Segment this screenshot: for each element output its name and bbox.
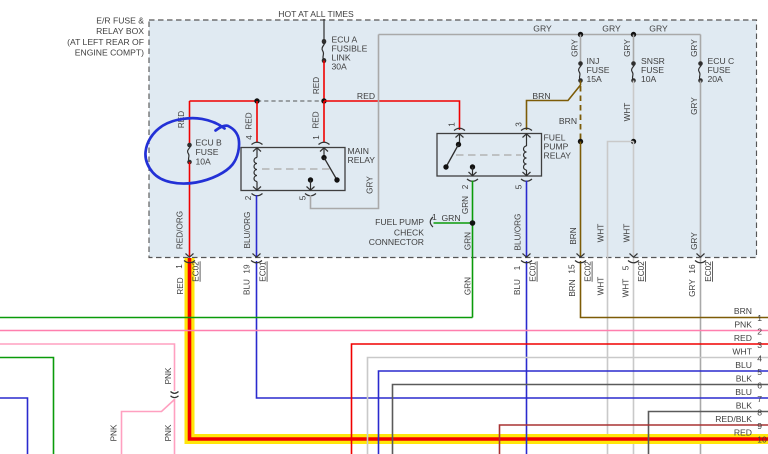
wire: BLU/ORG from main relay pin 2 to exit EC01-19 bbox=[256, 195, 258, 257]
wire: RED/BLK row 9 bbox=[500, 425, 768, 454]
wire: PNK upper left with inline connector bbox=[0, 344, 175, 391]
E/R fuse & relay box (dashed, light blue) bbox=[149, 20, 757, 258]
wire: RED down to main relay pin 4 bbox=[256, 101, 258, 142]
svg-text:9: 9 bbox=[757, 421, 762, 431]
connector: fuel pump relay pin 1 bbox=[454, 128, 465, 137]
connector: main relay pin 5 bbox=[305, 187, 316, 196]
connector: exit EC01-19 (BLU) bbox=[251, 254, 262, 263]
wire: RED horizontal right to fuel pump relay pin 1 bbox=[324, 101, 460, 130]
fuse: ECU A fusible link 30A bbox=[322, 39, 327, 63]
svg-text:PNK: PNK bbox=[734, 320, 752, 330]
relay: MAIN RELAY box bbox=[241, 148, 345, 191]
wire: GRY top bus bbox=[379, 34, 701, 36]
svg-text:GRN: GRN bbox=[441, 213, 460, 223]
svg-text:BLU: BLU bbox=[513, 279, 522, 295]
svg-text:EC02: EC02 bbox=[192, 261, 201, 282]
svg-text:HOT AT ALL TIMES: HOT AT ALL TIMES bbox=[278, 9, 354, 19]
svg-text:BLK: BLK bbox=[736, 374, 753, 384]
svg-text:3: 3 bbox=[757, 340, 762, 350]
wire: GRN row 1 left bbox=[0, 317, 473, 319]
svg-text:WHT: WHT bbox=[597, 224, 606, 243]
svg-text:6: 6 bbox=[757, 381, 762, 391]
svg-text:EC02: EC02 bbox=[584, 261, 593, 282]
svg-text:PNK: PNK bbox=[164, 424, 173, 441]
svg-text:RED: RED bbox=[357, 91, 375, 101]
svg-text:RELAY: RELAY bbox=[544, 151, 572, 161]
wire: PNK row 2 bbox=[0, 330, 768, 332]
wire: GRY from ECU C fuse down to exit EC02-16 and page bottom bbox=[700, 81, 702, 454]
svg-text:BRN: BRN bbox=[569, 227, 578, 244]
node: WHT junction dot bbox=[631, 139, 636, 144]
svg-text:RED: RED bbox=[312, 77, 321, 94]
dashed link: main relay bbox=[262, 168, 330, 170]
coil: main relay coil bbox=[254, 148, 257, 191]
switch: fuel pump relay contacts bbox=[443, 134, 475, 177]
svg-text:4: 4 bbox=[757, 354, 762, 364]
svg-text:2: 2 bbox=[461, 184, 470, 189]
fuse: ECU B fuse 10A bbox=[187, 143, 192, 165]
svg-text:EC01: EC01 bbox=[259, 261, 268, 282]
switch: main relay contacts bbox=[308, 148, 340, 191]
connector: inline PNK connector bbox=[171, 392, 179, 394]
svg-text:PNK: PNK bbox=[164, 367, 173, 384]
wire: WHT branch left and down (no connector) bbox=[608, 142, 634, 454]
wire: stub from HOT AT ALL TIMES to ECU A fusible link bbox=[323, 19, 325, 41]
wire: BLU/ORG from fuel pump relay pin 5 to exit EC01-1 bbox=[526, 181, 528, 258]
node: bus dot at SNSR branch bbox=[631, 32, 636, 37]
svg-text:BLU: BLU bbox=[735, 360, 752, 370]
dashed link: fuel pump relay bbox=[456, 154, 521, 156]
svg-text:GRY: GRY bbox=[688, 279, 697, 297]
svg-text:5: 5 bbox=[299, 195, 308, 200]
svg-text:10: 10 bbox=[757, 435, 767, 445]
svg-text:2: 2 bbox=[244, 195, 253, 200]
svg-text:1: 1 bbox=[432, 212, 437, 222]
wire: RED down to main relay pin 1 bbox=[323, 101, 325, 142]
svg-text:WHT: WHT bbox=[623, 224, 632, 243]
svg-text:5: 5 bbox=[757, 367, 762, 377]
coil: fuel pump relay coil bbox=[524, 134, 527, 177]
wire: GRN row 4 left bbox=[0, 358, 54, 454]
svg-text:WHT: WHT bbox=[622, 279, 631, 298]
connector: exit EC01-1 (BLU) bbox=[521, 254, 532, 263]
svg-text:BLK: BLK bbox=[736, 401, 753, 411]
svg-text:RELAY BOX: RELAY BOX bbox=[96, 26, 144, 36]
svg-text:1: 1 bbox=[513, 265, 522, 270]
svg-text:CHECK: CHECK bbox=[394, 228, 424, 238]
annotation: hand-drawn blue circle around ECU B fuse bbox=[145, 118, 239, 183]
svg-text:BLU/ORG: BLU/ORG bbox=[514, 214, 523, 251]
connector: main relay pin 1 bbox=[319, 142, 330, 151]
fuse: ECU C FUSE 20A bbox=[698, 61, 703, 83]
node: bus dot at INJ branch bbox=[578, 32, 583, 37]
svg-text:GRY: GRY bbox=[649, 24, 668, 34]
svg-text:E/R FUSE &: E/R FUSE & bbox=[96, 16, 144, 26]
node: junction dot B bbox=[321, 98, 326, 103]
svg-text:19: 19 bbox=[243, 264, 252, 274]
node: BRN junction dot bbox=[578, 139, 583, 144]
fuse: SNSR FUSE 10A bbox=[631, 61, 636, 83]
wire: BLU from exit EC01-19 down to row 7 bbox=[257, 261, 768, 398]
connector: exit EC02-15 (BRN) bbox=[575, 254, 586, 263]
wire: GRY drop to INJ fuse bbox=[580, 35, 582, 64]
svg-text:(AT LEFT REAR OF: (AT LEFT REAR OF bbox=[67, 37, 144, 47]
svg-text:4: 4 bbox=[245, 135, 254, 140]
wire: RED row 3 bbox=[352, 344, 768, 454]
wire: WHT down to exit EC02-5 and page bottom bbox=[633, 142, 635, 454]
wire: WHT from SNSR fuse down bbox=[633, 81, 635, 142]
svg-text:ENGINE COMPT): ENGINE COMPT) bbox=[75, 48, 144, 58]
svg-text:20A: 20A bbox=[708, 74, 724, 84]
svg-text:7: 7 bbox=[757, 394, 762, 404]
wire: RED from ECU A fuse down to junction bbox=[323, 61, 325, 102]
svg-text:GRY: GRY bbox=[690, 39, 699, 57]
svg-text:RED: RED bbox=[176, 277, 185, 294]
svg-text:WHT: WHT bbox=[623, 103, 632, 122]
svg-text:GRY: GRY bbox=[690, 232, 699, 250]
thick highlighted RED wire (yellow marker) row 10 bbox=[190, 258, 768, 439]
wire: RED horizontal left segment to ECU B column bbox=[190, 100, 258, 102]
wire: BLK row 8 bbox=[649, 412, 768, 454]
connector: exit EC02-5 (WHT) bbox=[628, 254, 639, 263]
svg-text:BRN: BRN bbox=[568, 279, 577, 296]
svg-text:10A: 10A bbox=[641, 74, 657, 84]
svg-text:PNK: PNK bbox=[110, 424, 119, 441]
connector: main relay pin 2 bbox=[252, 187, 263, 196]
connector: fuel pump relay pin 2 bbox=[467, 172, 478, 181]
wire: BRN row 1 right bbox=[581, 261, 768, 318]
svg-text:RED: RED bbox=[734, 428, 752, 438]
svg-text:BLU: BLU bbox=[243, 279, 252, 295]
svg-text:BLU: BLU bbox=[735, 387, 752, 397]
wire: GRN from fuel pump relay pin 2 down bbox=[472, 181, 474, 318]
svg-text:CONNECTOR: CONNECTOR bbox=[369, 237, 424, 247]
svg-text:5: 5 bbox=[515, 184, 524, 189]
svg-text:GRN: GRN bbox=[464, 232, 473, 250]
wire: BLK row 6 bbox=[393, 385, 768, 454]
svg-text:1: 1 bbox=[757, 313, 762, 323]
wire: BLU row 7 left bbox=[0, 398, 28, 454]
svg-text:EC02: EC02 bbox=[637, 261, 646, 282]
svg-text:BRN: BRN bbox=[532, 91, 550, 101]
svg-text:RED: RED bbox=[312, 111, 321, 128]
svg-text:1: 1 bbox=[448, 122, 457, 127]
wire: RED down-left to ECU B fuse bbox=[189, 101, 191, 145]
wire: RED/ORG from ECU B fuse to box exit EC02-1 bbox=[189, 162, 191, 257]
connector: fuel pump relay pin 5 bbox=[521, 172, 532, 181]
svg-text:16: 16 bbox=[688, 264, 697, 274]
node: junction dot A bbox=[254, 98, 259, 103]
connector: exit EC02-1 (RED/ORG) bbox=[184, 254, 195, 263]
svg-text:15: 15 bbox=[568, 264, 577, 274]
svg-text:GRY: GRY bbox=[366, 176, 375, 194]
svg-text:FUSE: FUSE bbox=[196, 147, 219, 157]
svg-text:ECU B: ECU B bbox=[196, 138, 223, 148]
wire: BRN dashed vertical bbox=[580, 86, 582, 142]
svg-text:8: 8 bbox=[757, 408, 762, 418]
svg-text:5: 5 bbox=[622, 265, 631, 270]
svg-text:GRY: GRY bbox=[533, 24, 552, 34]
svg-text:BLU/ORG: BLU/ORG bbox=[243, 212, 252, 249]
wire: WHT row 4 right bbox=[368, 358, 768, 454]
svg-text:EC02: EC02 bbox=[704, 261, 713, 282]
wire: BLU row 5 bbox=[379, 371, 768, 454]
svg-text:30A: 30A bbox=[332, 62, 348, 72]
svg-text:2: 2 bbox=[757, 327, 762, 337]
fuse: INJ FUSE 15A bbox=[578, 61, 583, 83]
svg-text:WHT: WHT bbox=[597, 277, 606, 296]
wire: BLU from exit EC01-1 down to page bottom bbox=[526, 261, 528, 454]
svg-text:1: 1 bbox=[312, 135, 321, 140]
svg-text:10A: 10A bbox=[196, 157, 212, 167]
svg-text:RED/ORG: RED/ORG bbox=[176, 211, 185, 249]
relay: FUEL PUMP RELAY box bbox=[437, 134, 542, 177]
svg-text:GRY: GRY bbox=[690, 97, 699, 115]
wire: BRN down to exit EC02-15 bbox=[580, 142, 582, 258]
row numbers right edge bbox=[757, 313, 767, 445]
svg-text:GRY: GRY bbox=[571, 39, 580, 57]
wire: dashed tie between junction dots bbox=[257, 100, 324, 102]
svg-text:GRY: GRY bbox=[602, 24, 621, 34]
wire: GRY drop to SNSR fuse bbox=[633, 35, 635, 64]
svg-text:RELAY: RELAY bbox=[348, 155, 376, 165]
svg-text:BRN: BRN bbox=[734, 306, 752, 316]
svg-text:WHT: WHT bbox=[732, 347, 752, 357]
wire: GRY drop to ECU C fuse bbox=[700, 35, 702, 64]
svg-text:RED: RED bbox=[245, 112, 254, 129]
svg-text:FUEL PUMP: FUEL PUMP bbox=[375, 217, 424, 227]
connector: fuel pump check connector stub bbox=[430, 217, 433, 227]
connector: fuel pump relay pin 3 bbox=[521, 128, 532, 137]
node: check connector junction dot bbox=[470, 220, 476, 226]
svg-text:BRN: BRN bbox=[559, 116, 577, 126]
wire: GRY from main relay pin 5 up to gray bus bbox=[311, 35, 379, 209]
connector: exit EC02-16 (GRY) bbox=[695, 254, 706, 263]
row labels right side bbox=[715, 306, 753, 438]
wire: PNK below connector to bottom bbox=[174, 399, 176, 454]
connector: main relay pin 4 bbox=[252, 142, 263, 151]
wire: PNK branch diagonal to x=121.5 bbox=[122, 400, 175, 454]
svg-text:GRN: GRN bbox=[464, 277, 473, 295]
svg-text:3: 3 bbox=[515, 122, 524, 127]
svg-text:GRN: GRN bbox=[461, 196, 470, 214]
svg-text:EC01: EC01 bbox=[529, 261, 538, 282]
svg-text:RED: RED bbox=[734, 333, 752, 343]
wire: BRN from INJ fuse to fuel pump relay pin 3 bbox=[527, 81, 581, 131]
svg-text:1: 1 bbox=[175, 264, 184, 269]
label: E/R FUSE & RELAY BOX bbox=[67, 16, 144, 58]
svg-text:GRY: GRY bbox=[623, 39, 632, 57]
svg-text:RED/BLK: RED/BLK bbox=[715, 414, 752, 424]
svg-text:15A: 15A bbox=[587, 74, 603, 84]
